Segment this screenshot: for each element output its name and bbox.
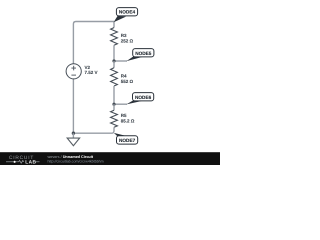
svg-text:R5: R5: [121, 113, 127, 118]
resistor R5: [111, 110, 135, 127]
footer bar: [0, 152, 220, 165]
resistor R4: [111, 68, 134, 86]
ground: [67, 133, 79, 146]
svg-text:552 Ω: 552 Ω: [121, 79, 133, 84]
footer title text: [47, 154, 104, 163]
wire top-left: V2 top to chain top: [73, 22, 114, 64]
svg-text:85.2 Ω: 85.2 Ω: [121, 119, 135, 124]
resistor R3: [111, 28, 134, 46]
node NODE5: [126, 49, 154, 62]
svg-text:NODE6: NODE6: [135, 94, 151, 100]
svg-text:252 Ω: 252 Ω: [121, 39, 133, 44]
svg-text:wevers / Unnamed Circuit: wevers / Unnamed Circuit: [47, 154, 93, 159]
svg-text:NODE5: NODE5: [135, 50, 151, 56]
node NODE7: [114, 133, 138, 144]
junction dot ground: [72, 132, 75, 135]
svg-text:R4: R4: [121, 73, 127, 78]
wire R4 to node junction: [113, 86, 115, 104]
node NODE4: [114, 8, 138, 23]
junction dot node6: [112, 103, 115, 106]
svg-text:R3: R3: [121, 33, 127, 38]
wire NODE5 branch: [114, 60, 127, 62]
svg-text:NODE7: NODE7: [119, 138, 135, 144]
wire NODE6 branch: [114, 103, 127, 105]
svg-text:http://circuitlab.com/c/crw4kb: http://circuitlab.com/c/crw4kbt55hm: [48, 159, 104, 164]
wire R3 to node junction: [113, 45, 115, 61]
wire chain bottom to corner: [73, 127, 114, 133]
junction dot node5: [112, 59, 115, 62]
voltage source V2: [66, 64, 97, 79]
node NODE6: [126, 93, 153, 105]
svg-text:LAB: LAB: [25, 160, 36, 166]
wire R4 top stub: [113, 61, 115, 68]
wire V2 bottom to ground corner: [72, 79, 74, 134]
svg-text:7.52 V: 7.52 V: [85, 70, 98, 75]
svg-text:V2: V2: [85, 65, 91, 70]
footer CircuitLab logo: [6, 155, 40, 165]
wire R5 top stub: [113, 104, 115, 110]
svg-text:NODE4: NODE4: [119, 9, 136, 15]
wire chain top stub: [113, 22, 115, 28]
